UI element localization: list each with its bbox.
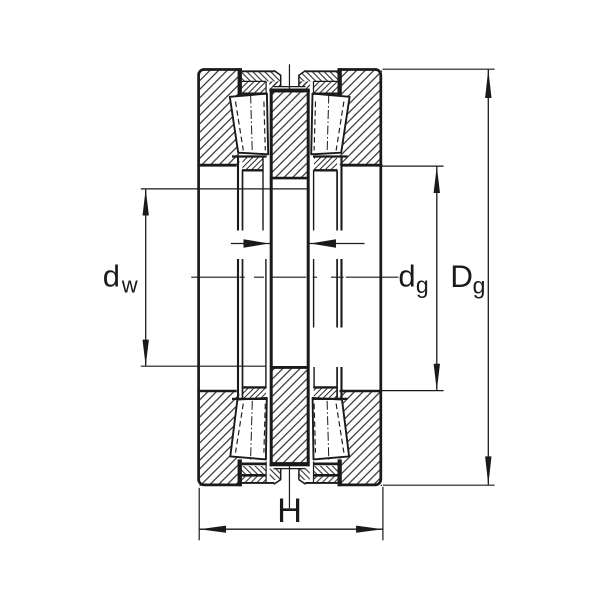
cage vertical line right second (336, 170, 338, 398)
washer inner edge verticals top (266, 81, 313, 94)
cage wedge bottom-left (242, 389, 266, 399)
notch chamfer lines bottom (274, 480, 306, 485)
svg-text:d: d (398, 259, 415, 294)
sleeve left edge (270, 89, 273, 467)
washer top surface line (242, 70, 338, 72)
svg-text:D: D (450, 258, 473, 294)
sleeve top flange bar (270, 89, 310, 93)
top white strip above sleeve bar (274, 87, 306, 89)
d_w extension line top (141, 188, 310, 190)
bottom white strip below sleeve bar (274, 466, 306, 468)
top housing washer strip (hatch /) (241, 81, 339, 92)
bore end line top right (342, 164, 382, 167)
right clamp bar top (338, 68, 342, 95)
sleeve bottom flange bar (270, 462, 310, 466)
centering sleeve top hatched section (271, 90, 308, 178)
H extension line right (382, 487, 384, 541)
svg-text:w: w (121, 273, 138, 298)
d_g extension line bottom (380, 390, 444, 392)
d_g arrow up (434, 166, 440, 193)
H extension line left (198, 488, 200, 541)
slot walls top (281, 75, 299, 87)
outer ring bottom-left block (197, 391, 239, 486)
roller top-right (311, 94, 349, 155)
right clamp bar bottom (338, 459, 342, 486)
vertical axis tick top (288, 64, 290, 90)
roller bottom-left (230, 398, 266, 460)
washer top heavy line bottom (242, 462, 338, 465)
d_w extension line bottom (141, 365, 266, 367)
sleeve right edge (307, 89, 310, 467)
cage vertical line left outer (237, 157, 239, 399)
cage vertical line right outer (340, 157, 342, 399)
bottom washer strip B (hatch /) (241, 475, 266, 483)
outer ring outline right (338, 70, 381, 485)
d_w arrow up (143, 189, 149, 216)
washer interface line top (242, 80, 338, 82)
top washer chunks beside slot (270, 81, 281, 86)
roller top-left (230, 94, 268, 155)
bottom washer chunks beside slot (270, 469, 281, 480)
cage wedge top-left (242, 157, 262, 169)
horizontal centerline (191, 276, 398, 278)
D_g extension line bottom (383, 484, 495, 486)
H arrow right (356, 526, 383, 533)
outer ring top-left block (197, 68, 239, 165)
centering sleeve bottom hatched section (271, 367, 308, 464)
svg-text:g: g (416, 272, 429, 298)
slot ledge line bottom (274, 468, 306, 470)
svg-text:H: H (277, 492, 302, 530)
washer inner edge verticals bottom (266, 462, 313, 483)
cage vertical line left inner (263, 157, 266, 387)
bore end line bottom right (340, 390, 382, 393)
d_g extension line top (380, 165, 444, 167)
bottom washer gaps (267, 461, 270, 483)
top notch white (274, 69, 306, 75)
arrow to sleeve right (308, 239, 365, 248)
slot ledge line top (274, 86, 306, 88)
d_g arrow down (434, 364, 440, 391)
sleeve division line lower (270, 366, 310, 369)
wedge boundary heavy lines bottom (242, 386, 337, 388)
d_w dimension line (145, 189, 147, 365)
d_w arrow down (143, 340, 149, 367)
washer interface heavy line bottom (242, 474, 338, 477)
H arrow left (199, 526, 226, 533)
bottom slot white (281, 469, 298, 480)
bottom notch white (274, 480, 306, 486)
wedge boundary heavy lines top (232, 155, 348, 157)
sleeve division line upper (270, 177, 310, 180)
cage wedge bottom-right (314, 389, 337, 399)
top shaft washer strip (hatch \) (241, 71, 339, 82)
top washer gaps (267, 81, 270, 95)
D_g extension line top (383, 68, 495, 70)
slot walls bottom (281, 469, 299, 480)
bore end line bottom left (197, 390, 236, 393)
bottom washer strip A (hatch \) (241, 466, 266, 475)
svg-text:d: d (103, 259, 120, 294)
outer ring top-right block (340, 68, 382, 165)
H dimension line (200, 528, 383, 530)
outer ring outline left (199, 70, 242, 485)
bore end line top (hatch end) left (197, 164, 236, 167)
D_g arrow up (485, 69, 491, 98)
washer bottom heavy line top (242, 92, 338, 94)
top slot white (281, 70, 298, 86)
left clamp bar top (238, 68, 242, 95)
roller bottom-right (313, 398, 350, 460)
D_g arrow down (485, 456, 491, 485)
washer bottom surface line (242, 482, 338, 484)
D_g dimension line (487, 70, 489, 485)
cage vertical line right inner (313, 170, 316, 387)
vertical axis tick bottom (288, 466, 290, 508)
cage wedge top-right (314, 157, 337, 169)
outer ring bottom-right block (340, 391, 382, 486)
svg-text:g: g (473, 272, 486, 298)
d_g dimension line (436, 167, 438, 391)
notch chamfer lines top (274, 71, 306, 76)
arrow to sleeve left (231, 239, 272, 248)
left clamp bar bottom (238, 459, 242, 486)
cage vertical line left second (242, 170, 244, 398)
